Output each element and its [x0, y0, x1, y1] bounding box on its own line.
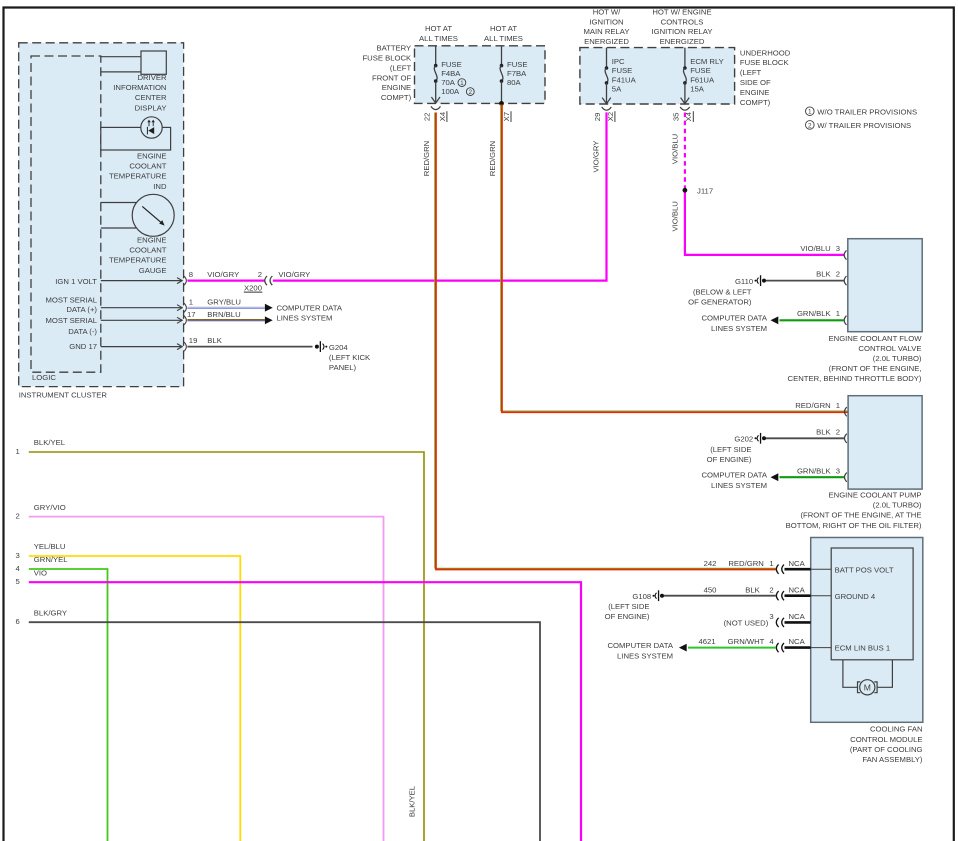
svg-text:ALL TIMES: ALL TIMES: [484, 34, 523, 43]
module pin 3 not used: [724, 612, 811, 628]
svg-text:VIO/BLU: VIO/BLU: [670, 134, 679, 164]
ground G108: [605, 590, 664, 621]
battery fuse block box: [415, 46, 546, 104]
svg-text:GRN/BLK: GRN/BLK: [797, 466, 832, 475]
svg-text:X200: X200: [244, 283, 262, 292]
svg-text:CENTER: CENTER: [135, 93, 167, 102]
svg-text:70A: 70A: [441, 78, 456, 87]
svg-text:F61UA: F61UA: [690, 75, 715, 84]
svg-text:LINES SYSTEM: LINES SYSTEM: [711, 481, 767, 490]
svg-text:(LEFT KICK: (LEFT KICK: [329, 353, 371, 362]
underhood fuse block label: [740, 48, 791, 107]
svg-text:COMPUTER DATA: COMPUTER DATA: [608, 641, 674, 650]
svg-text:NCA: NCA: [789, 559, 806, 568]
svg-text:COOLANT: COOLANT: [129, 162, 166, 171]
wire GRY/BLU: [187, 297, 272, 311]
fuse ECM RLY F61UA: [681, 48, 724, 104]
svg-text:INFORMATION: INFORMATION: [113, 83, 166, 92]
ground G204: [315, 341, 371, 372]
wire VIO/BLU solid to valve: [670, 193, 844, 255]
connector X7 label: [502, 111, 511, 122]
wire GRN/WHT module to computer data lines: [688, 647, 776, 649]
svg-text:VIO/GRY: VIO/GRY: [592, 141, 601, 173]
stub wire 3 YEL/BLU: [16, 542, 241, 841]
svg-text:NCA: NCA: [789, 612, 806, 621]
svg-text:35: 35: [672, 113, 681, 122]
stub wire 4 GRN/YEL: [16, 555, 108, 841]
svg-text:GRN/YEL: GRN/YEL: [34, 555, 68, 564]
connector X2 label: [606, 111, 615, 122]
svg-text:IGNITION: IGNITION: [589, 17, 623, 26]
svg-text:BATTERY: BATTERY: [376, 44, 411, 53]
svg-text:ECM RLY: ECM RLY: [690, 57, 724, 66]
svg-text:J117: J117: [697, 186, 713, 195]
svg-text:COMPT): COMPT): [740, 98, 771, 107]
hot w engine controls ignition relay label: [652, 7, 713, 46]
svg-text:YEL/BLU: YEL/BLU: [34, 542, 66, 551]
svg-text:(LEFT: (LEFT: [740, 68, 762, 77]
svg-text:BLK: BLK: [816, 427, 831, 436]
svg-text:F41UA: F41UA: [612, 75, 637, 84]
svg-text:8: 8: [189, 270, 193, 279]
connector X200: [244, 276, 272, 292]
gauge stub 1: [101, 202, 140, 204]
svg-text:3: 3: [836, 466, 840, 475]
svg-text:LOGIC: LOGIC: [32, 373, 56, 382]
svg-text:TEMPERATURE: TEMPERATURE: [109, 256, 167, 265]
connector arc pin 29: [602, 107, 612, 110]
svg-text:BOTTOM, RIGHT OF THE OIL FILTE: BOTTOM, RIGHT OF THE OIL FILTER): [786, 521, 922, 530]
engine coolant temperature indicator: [101, 117, 171, 191]
svg-text:IGNITION RELAY: IGNITION RELAY: [652, 27, 713, 36]
svg-text:ENGINE: ENGINE: [137, 152, 166, 161]
svg-text:2: 2: [836, 270, 840, 279]
svg-text:F7BA: F7BA: [507, 69, 527, 78]
svg-text:FUSE BLOCK: FUSE BLOCK: [362, 54, 412, 63]
svg-text:GRY/BLU: GRY/BLU: [207, 297, 241, 306]
svg-text:OF ENGINE): OF ENGINE): [707, 455, 752, 464]
hot at all times label 1: [419, 24, 458, 43]
svg-text:GND 17: GND 17: [69, 342, 97, 351]
valve pin 2 connector: [844, 276, 846, 285]
svg-text:5A: 5A: [612, 85, 622, 94]
stub wire 2 GRY/VIO: [16, 503, 384, 841]
svg-text:FUSE: FUSE: [612, 66, 633, 75]
module pin 4 ECM LIN BUS 1: [699, 637, 891, 653]
svg-text:G204: G204: [329, 343, 349, 352]
wire display stub 2: [101, 71, 141, 73]
svg-text:100A: 100A: [441, 87, 460, 96]
engine coolant flow control valve box: [848, 239, 922, 332]
driver information center display: [113, 51, 167, 112]
svg-text:5: 5: [16, 577, 20, 586]
wire VIO/BLU dashed segment: [670, 113, 685, 189]
svg-text:BRN/BLU: BRN/BLU: [207, 310, 240, 319]
note 1 W/O trailer provisions: [806, 107, 918, 116]
stub wire 5 VIO: [16, 568, 581, 841]
fuse F7BA: [500, 46, 528, 104]
wire BLK to G204: [187, 336, 312, 346]
svg-text:IND: IND: [153, 182, 167, 191]
svg-text:MOST SERIAL: MOST SERIAL: [45, 316, 97, 325]
svg-text:22: 22: [422, 113, 431, 122]
svg-text:COMPT): COMPT): [381, 93, 412, 102]
svg-text:19: 19: [189, 336, 198, 345]
pin GND 17 internal wire: [69, 336, 197, 351]
connector arc pin 35: [680, 107, 690, 110]
pin MOST SERIAL DATA (+) internal wire: [45, 295, 193, 314]
svg-text:FUSE: FUSE: [507, 60, 528, 69]
valve pin 1 connector: [844, 316, 846, 325]
svg-text:IGN 1 VOLT: IGN 1 VOLT: [55, 277, 97, 286]
engine coolant pump box: [848, 396, 922, 489]
wire GRN/BLK pump to computer data lines: [780, 476, 845, 478]
junction dot at X7: [499, 101, 504, 106]
svg-text:ENERGIZED: ENERGIZED: [660, 37, 705, 46]
svg-text:3: 3: [836, 244, 840, 253]
svg-text:IPC: IPC: [612, 57, 625, 66]
pin IGN 1 VOLT internal wire: [55, 270, 193, 286]
svg-text:BLK: BLK: [207, 336, 222, 345]
svg-text:1: 1: [836, 401, 840, 410]
ground G110: [688, 275, 766, 306]
svg-text:GRY/VIO: GRY/VIO: [34, 503, 66, 512]
pump pin 1 connector: [845, 407, 847, 416]
svg-text:COMPUTER DATA: COMPUTER DATA: [702, 314, 768, 323]
pump pin 3 labels: [797, 466, 840, 475]
fan motor wiring: [843, 660, 893, 688]
computer data lines system label (module): [608, 641, 674, 660]
svg-text:FAN ASSEMBLY): FAN ASSEMBLY): [862, 755, 923, 764]
svg-text:HOT AT: HOT AT: [490, 24, 517, 33]
svg-text:VIO/GRY: VIO/GRY: [278, 270, 310, 279]
valve pin 1 labels: [797, 309, 840, 318]
svg-text:1: 1: [16, 447, 20, 456]
pump pin 2 labels: [816, 427, 840, 436]
engine coolant temperature gauge: [109, 194, 174, 274]
svg-text:VIO/GRY: VIO/GRY: [207, 270, 239, 279]
valve pin 2 labels: [816, 270, 840, 279]
connector X4 label (ECM): [684, 111, 693, 122]
note 2 W/ trailer provisions: [806, 121, 912, 130]
svg-text:HOT AT: HOT AT: [425, 24, 452, 33]
svg-text:1: 1: [769, 559, 773, 568]
computer data lines system label (cluster): [277, 304, 343, 323]
svg-text:COMPUTER DATA: COMPUTER DATA: [702, 471, 768, 480]
underhood fuse block box: [580, 48, 735, 104]
svg-text:3: 3: [769, 612, 773, 621]
svg-text:(LEFT SIDE: (LEFT SIDE: [710, 445, 751, 454]
svg-text:BLK: BLK: [816, 270, 831, 279]
svg-text:G110: G110: [735, 277, 753, 286]
svg-text:DATA (+): DATA (+): [66, 305, 97, 314]
svg-text:6: 6: [16, 617, 20, 626]
svg-text:(NOT USED): (NOT USED): [724, 619, 769, 628]
svg-text:UNDERHOOD: UNDERHOOD: [740, 48, 791, 57]
svg-text:OF ENGINE): OF ENGINE): [605, 612, 650, 621]
pump pin 1 labels: [795, 401, 840, 410]
valve title: [788, 334, 923, 383]
pump pin 3 connector: [845, 473, 847, 482]
cooling fan control module outer box: [811, 538, 923, 723]
wire VIO/GRY cluster to X200: [187, 270, 265, 280]
svg-text:2: 2: [808, 122, 812, 129]
svg-text:PANEL): PANEL): [329, 363, 357, 372]
svg-text:(2.0L TURBO): (2.0L TURBO): [873, 354, 922, 363]
svg-text:COMPUTER DATA: COMPUTER DATA: [277, 304, 343, 313]
fuse IPC F41UA: [602, 48, 636, 104]
svg-text:VIO: VIO: [34, 568, 47, 577]
svg-text:GRN/WHT: GRN/WHT: [728, 637, 765, 646]
svg-text:(LEFT SIDE: (LEFT SIDE: [608, 602, 649, 611]
svg-text:GRN/BLK: GRN/BLK: [797, 309, 832, 318]
svg-text:ENGINE: ENGINE: [740, 88, 769, 97]
svg-text:X7: X7: [502, 112, 511, 121]
pump pin 2 connector: [845, 434, 847, 443]
gauge stub 2: [101, 227, 140, 229]
svg-text:RED/GRN: RED/GRN: [728, 559, 763, 568]
svg-text:DISPLAY: DISPLAY: [135, 103, 167, 112]
svg-text:4: 4: [769, 637, 774, 646]
svg-text:(PART OF COOLING: (PART OF COOLING: [850, 745, 923, 754]
svg-text:ECM LIN BUS 1: ECM LIN BUS 1: [835, 644, 891, 653]
stub wire 1 BLK/YEL: [16, 438, 424, 841]
svg-text:29: 29: [593, 113, 602, 122]
svg-text:17: 17: [187, 310, 196, 319]
svg-text:BLK: BLK: [745, 585, 760, 594]
fuse F4BA: [431, 46, 461, 103]
svg-text:2: 2: [258, 270, 262, 279]
svg-text:RED/GRN: RED/GRN: [422, 141, 431, 176]
svg-text:X2: X2: [606, 112, 615, 121]
svg-text:VIO/BLU: VIO/BLU: [670, 201, 679, 231]
svg-text:BLK/YEL: BLK/YEL: [34, 438, 66, 447]
svg-text:(FRONT OF THE ENGINE,: (FRONT OF THE ENGINE,: [829, 364, 922, 373]
svg-text:HOT W/: HOT W/: [593, 7, 621, 16]
hot at all times label 2: [484, 24, 523, 43]
svg-text:FUSE: FUSE: [441, 60, 462, 69]
wire BRN/BLU: [187, 310, 272, 324]
module pin 2 GROUND 4: [704, 585, 876, 601]
svg-text:DATA (-): DATA (-): [68, 327, 97, 336]
svg-text:(LEFT: (LEFT: [390, 63, 412, 72]
svg-text:COOLANT: COOLANT: [129, 246, 166, 255]
svg-text:2: 2: [16, 511, 20, 520]
svg-text:F4BA: F4BA: [441, 69, 461, 78]
svg-text:DRIVER: DRIVER: [137, 73, 166, 82]
svg-text:3: 3: [16, 551, 20, 560]
wire BLK G202 to pump: [766, 437, 844, 439]
svg-text:15A: 15A: [690, 85, 705, 94]
svg-text:ENGINE: ENGINE: [137, 236, 166, 245]
logic inner box: [31, 56, 101, 372]
valve pin 3 labels: [800, 244, 840, 253]
svg-text:(BELOW & LEFT: (BELOW & LEFT: [693, 288, 752, 297]
svg-text:ENGINE: ENGINE: [382, 83, 411, 92]
connector X4 label: [438, 111, 447, 122]
note circle 2 at fuse F4BA: [466, 88, 474, 96]
computer data lines arrow (module): [679, 644, 687, 652]
svg-text:1: 1: [836, 309, 840, 318]
wire RED/GRN fuse F7BA to engine coolant pump: [488, 105, 848, 413]
svg-text:RED/GRN: RED/GRN: [795, 401, 830, 410]
module pin 1 BATT POS VOLT: [704, 559, 894, 575]
svg-text:TEMPERATURE: TEMPERATURE: [109, 172, 167, 181]
instrument cluster outer box: [19, 43, 184, 387]
svg-text:2: 2: [769, 585, 773, 594]
svg-text:ENERGIZED: ENERGIZED: [584, 37, 629, 46]
note circle 1 at fuse F4BA: [458, 79, 466, 87]
computer data lines system label (valve): [702, 314, 768, 333]
svg-text:CONTROL VALVE: CONTROL VALVE: [858, 344, 921, 353]
svg-text:LINES SYSTEM: LINES SYSTEM: [277, 314, 333, 323]
svg-text:COOLING FAN: COOLING FAN: [870, 725, 923, 734]
svg-text:W/O TRAILER PROVISIONS: W/O TRAILER PROVISIONS: [817, 107, 917, 116]
svg-text:FUSE BLOCK: FUSE BLOCK: [740, 58, 790, 67]
wire RED/GRN fuse F4BA to cooling fan module: [422, 113, 776, 570]
svg-text:450: 450: [704, 585, 717, 594]
svg-text:LINES SYSTEM: LINES SYSTEM: [617, 652, 673, 661]
svg-text:G108: G108: [632, 592, 651, 601]
valve pin 3 connector: [844, 250, 846, 259]
stub wire 6 BLK/GRY: [16, 608, 540, 841]
svg-text:(FRONT OF THE ENGINE, AT THE: (FRONT OF THE ENGINE, AT THE: [800, 511, 921, 520]
wire display stub 1: [101, 56, 141, 58]
svg-text:GROUND 4: GROUND 4: [835, 592, 876, 601]
svg-text:W/ TRAILER PROVISIONS: W/ TRAILER PROVISIONS: [817, 121, 911, 130]
svg-text:BLK/GRY: BLK/GRY: [34, 608, 67, 617]
wire BLK G108 to module: [664, 595, 776, 597]
svg-text:(2.0L TURBO): (2.0L TURBO): [873, 501, 922, 510]
svg-text:4621: 4621: [699, 637, 716, 646]
svg-text:242: 242: [704, 559, 717, 568]
svg-text:M: M: [864, 682, 871, 692]
svg-text:RED/GRN: RED/GRN: [488, 141, 497, 176]
svg-text:OF GENERATOR): OF GENERATOR): [688, 298, 752, 307]
svg-text:G202: G202: [734, 435, 753, 444]
svg-text:INSTRUMENT CLUSTER: INSTRUMENT CLUSTER: [19, 390, 108, 399]
computer data lines system label (pump): [702, 471, 768, 490]
svg-text:CONTROL MODULE: CONTROL MODULE: [850, 735, 922, 744]
svg-text:GAUGE: GAUGE: [139, 266, 167, 275]
fan motor M: [858, 680, 878, 695]
svg-text:X4: X4: [438, 111, 447, 121]
wire GRN/BLK valve to computer data lines: [780, 319, 844, 321]
svg-text:FUSE: FUSE: [690, 66, 711, 75]
junction J117: [683, 186, 714, 195]
svg-text:VIO/BLU: VIO/BLU: [800, 244, 830, 253]
svg-text:2: 2: [836, 427, 840, 436]
svg-text:FRONT OF: FRONT OF: [372, 73, 411, 82]
svg-text:HOT W/ ENGINE: HOT W/ ENGINE: [652, 7, 711, 16]
battery fuse block label: [362, 44, 412, 103]
svg-text:NCA: NCA: [789, 585, 806, 594]
connector arc pin 22: [431, 106, 441, 109]
svg-text:1: 1: [808, 109, 812, 116]
svg-text:ALL TIMES: ALL TIMES: [419, 34, 458, 43]
svg-text:MOST SERIAL: MOST SERIAL: [45, 295, 97, 304]
pump title: [786, 491, 922, 530]
wire VIO/GRY X200 to IPC fuse: [273, 112, 607, 280]
svg-text:BATT POS VOLT: BATT POS VOLT: [835, 565, 894, 574]
computer data lines arrow (valve): [771, 316, 779, 324]
cooling fan control module inner box: [831, 548, 913, 660]
svg-text:MAIN RELAY: MAIN RELAY: [584, 27, 630, 36]
wire BLK G110 to valve: [766, 280, 844, 282]
svg-text:ENGINE COOLANT PUMP: ENGINE COOLANT PUMP: [829, 491, 922, 500]
computer data lines arrow (pump): [771, 473, 779, 481]
ground G202: [707, 433, 766, 464]
svg-text:1: 1: [189, 297, 193, 306]
svg-text:ENGINE COOLANT FLOW: ENGINE COOLANT FLOW: [829, 334, 923, 343]
svg-text:CONTROLS: CONTROLS: [661, 17, 704, 26]
svg-text:80A: 80A: [507, 78, 522, 87]
svg-text:LINES SYSTEM: LINES SYSTEM: [711, 324, 767, 333]
svg-text:SIDE OF: SIDE OF: [740, 78, 771, 87]
svg-text:4: 4: [16, 564, 21, 573]
svg-text:BLK/YEL: BLK/YEL: [408, 785, 417, 817]
svg-text:NCA: NCA: [789, 637, 806, 646]
svg-text:CENTER, BEHIND THROTTLE BODY): CENTER, BEHIND THROTTLE BODY): [788, 374, 922, 383]
hot w ignition main relay label: [584, 7, 630, 46]
pin MOST SERIAL DATA (-) internal wire: [45, 310, 195, 336]
module title: [850, 725, 923, 764]
